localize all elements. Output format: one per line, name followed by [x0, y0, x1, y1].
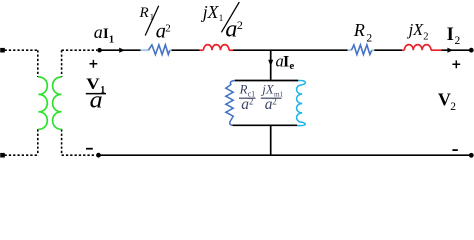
- svg-text:I: I: [283, 53, 289, 70]
- arrow aI1: [119, 48, 125, 53]
- svg-text:2: 2: [165, 22, 171, 34]
- wire X2 to terminal: [442, 49, 470, 51]
- resistor Rc1/a^2 (vertical, blue): [226, 81, 235, 126]
- inductor jX1/a^2 lead right: [229, 49, 233, 51]
- inductor jX2 lead right: [431, 49, 442, 51]
- wire dashed bottom to node: [62, 154, 96, 156]
- shunt box bottom wire: [232, 124, 297, 126]
- terminal bottom-left: [0, 153, 5, 158]
- wire top: node to R1: [101, 49, 141, 51]
- resistor R2 lead left: [348, 49, 352, 51]
- resistor R2 lead right: [372, 49, 375, 51]
- svg-text:a: a: [94, 22, 103, 42]
- svg-text:e: e: [289, 60, 294, 72]
- resistor R1/a^2: [148, 45, 170, 55]
- svg-text:2: 2: [366, 32, 372, 44]
- resistor R1/a^2 lead right: [170, 49, 172, 51]
- resistor R2: [351, 45, 371, 55]
- arrow aIe (down): [268, 60, 273, 67]
- svg-text:1: 1: [109, 34, 114, 45]
- plus sign right: [452, 60, 460, 68]
- wire dashed bottom-left horizontal: [5, 154, 38, 156]
- svg-text:2: 2: [423, 32, 428, 43]
- wire dashed primary-bottom vertical: [37, 129, 39, 155]
- svg-text:a: a: [225, 17, 237, 43]
- svg-text:1: 1: [219, 13, 224, 23]
- wire dashed top to node: [62, 49, 97, 51]
- plus sign left: [90, 60, 98, 68]
- svg-text:V: V: [438, 90, 451, 110]
- shunt box top wire: [235, 80, 299, 82]
- wire bottom rail: [99, 154, 471, 156]
- transformer winding right (green): [53, 77, 62, 129]
- minus sign right: [452, 149, 457, 151]
- terminal bottom-right: [469, 153, 474, 158]
- inductor jX1/a^2 lead left: [200, 49, 204, 51]
- node a (top): [97, 48, 102, 53]
- svg-text:jX: jX: [260, 83, 275, 97]
- arrow I2: [447, 48, 453, 53]
- svg-text:2: 2: [249, 97, 254, 107]
- resistor R1/a^2 lead left: [141, 49, 149, 51]
- svg-text:R: R: [239, 83, 248, 97]
- svg-text:2: 2: [455, 35, 461, 47]
- node b (bottom): [96, 153, 101, 158]
- svg-text:2: 2: [237, 18, 243, 32]
- wire dashed secondary-top vertical: [61, 50, 63, 77]
- wire dashed top-left horizontal: [5, 49, 38, 51]
- terminal top-left: [0, 48, 5, 53]
- wire R1 to X1: [172, 49, 200, 51]
- inductor jX2 lead left: [402, 49, 404, 51]
- svg-text:I: I: [447, 25, 454, 45]
- svg-text:2: 2: [450, 101, 456, 113]
- svg-text:a: a: [90, 88, 103, 114]
- inductor jX1/a^2: [204, 45, 230, 51]
- wire dashed primary-top vertical: [37, 50, 39, 77]
- wire shunt branch lower: [270, 125, 272, 155]
- wire R2 to X2: [374, 49, 402, 51]
- svg-text:R: R: [139, 5, 149, 21]
- transformer winding left (green): [38, 77, 47, 129]
- svg-text:R: R: [353, 20, 365, 40]
- wire dashed secondary-bottom vertical: [61, 129, 63, 155]
- wire X1 to R2 (through node): [233, 49, 348, 51]
- svg-text:jX: jX: [407, 20, 425, 39]
- terminal top-right: [469, 48, 474, 53]
- inductor jX2: [404, 45, 431, 51]
- inductor jXm1/a^2 (vertical, cyan): [297, 81, 306, 126]
- wire shunt branch upper: [270, 50, 272, 80]
- minus sign left: [86, 148, 93, 150]
- svg-text:2: 2: [272, 97, 277, 107]
- svg-text:jX: jX: [201, 2, 220, 22]
